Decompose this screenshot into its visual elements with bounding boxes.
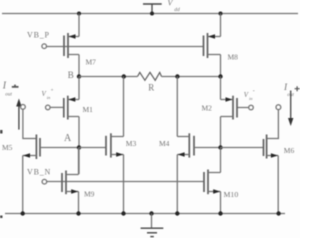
power supply Vdd symbol — [143, 4, 162, 14]
svg-text:M6: M6 — [284, 146, 295, 155]
label Iout- — [2, 81, 19, 98]
label Vin- — [244, 89, 255, 102]
svg-text:+: + — [51, 88, 54, 94]
svg-text:M1: M1 — [83, 105, 94, 114]
node B — [77, 74, 81, 78]
wire node B to resistor — [79, 76, 138, 78]
wire M5 source to bottom rail — [22, 156, 24, 214]
node dot rail M10 — [218, 211, 222, 215]
wire VB_N bus to gates of M9 M10 — [47, 181, 204, 183]
svg-text:M5: M5 — [2, 143, 13, 152]
transistor M1 (PMOS) — [64, 96, 79, 120]
wire Iout+ terminal to M6 drain — [267, 110, 279, 139]
transistor M9 (NMOS) — [62, 171, 79, 195]
wire M5 gate to node A — [40, 147, 79, 149]
node dot top rail left — [77, 12, 81, 16]
svg-text:M2: M2 — [202, 104, 213, 113]
label Iout+ — [283, 83, 300, 98]
wire M1 source to node B — [78, 77, 80, 100]
svg-text:M9: M9 — [84, 190, 95, 199]
terminal Vin+ — [46, 105, 51, 110]
wire Vin+ to M1 gate — [50, 106, 64, 108]
node dot rail M4 — [175, 211, 179, 215]
wire node A to M9 drain — [78, 148, 80, 175]
transistor M2 (PMOS mirrored) — [221, 96, 238, 120]
wire top rail VDD — [2, 13, 298, 15]
wire node A to M3 gate — [79, 147, 106, 149]
node dot top rail right — [219, 12, 223, 16]
node dot top rail supply — [150, 12, 154, 16]
edge mark left bottom — [0, 216, 3, 219]
transistor M4 (NMOS mirrored) — [177, 133, 194, 157]
node M4 drain on R wire — [175, 74, 179, 78]
svg-text:B: B — [68, 70, 74, 80]
transistor M8 (PMOS) — [204, 33, 221, 58]
node A — [77, 145, 81, 149]
terminal Iout+ — [276, 105, 281, 110]
svg-text:VB_P: VB_P — [27, 31, 50, 40]
wire M8 drain to node B2 — [220, 55, 222, 77]
svg-text:V: V — [42, 90, 47, 98]
transistor M10 (NMOS) — [204, 170, 221, 195]
wire Vin- to M2 gate — [237, 107, 249, 109]
wire node A2 to M10 drain — [220, 148, 222, 173]
wire M7 source to rail — [78, 14, 80, 37]
label Vdd — [168, 0, 181, 13]
wire M7 drain to node B — [78, 55, 80, 77]
node M3 drain on R wire — [122, 74, 126, 78]
transistor M5 (NMOS mirrored) — [23, 135, 40, 160]
terminal Vin- — [249, 105, 254, 110]
wire M2 drain to node A2 — [220, 117, 222, 148]
wire M1 drain to node A — [78, 117, 80, 148]
edge mark left middle — [0, 130, 3, 134]
svg-text:R: R — [148, 82, 154, 92]
node dot rail M5 — [21, 211, 25, 215]
svg-text:M3: M3 — [126, 139, 137, 148]
wire Iout- terminal to M5 drain — [23, 109, 37, 138]
svg-text:VB_N: VB_N — [27, 168, 51, 177]
node dot rail M6 — [276, 211, 280, 215]
wire M6 source to bottom rail — [277, 156, 279, 214]
svg-text:in: in — [249, 96, 253, 101]
terminal Iout- — [21, 105, 26, 110]
wire M4 drain up to R wire — [176, 77, 178, 137]
svg-text:A: A — [64, 133, 72, 144]
wire M9 drain to node A column — [78, 148, 80, 175]
node dot rail M3 — [121, 211, 125, 215]
wire VB_P bus to gates of M7 M8 — [47, 46, 204, 48]
svg-text:M7: M7 — [86, 58, 97, 67]
node A2 — [218, 145, 222, 149]
node B2 dot — [218, 74, 222, 78]
resistor R — [138, 72, 162, 80]
svg-text:I: I — [2, 81, 7, 92]
svg-text:M8: M8 — [228, 53, 239, 62]
svg-text:M10: M10 — [224, 190, 239, 199]
svg-text:-: - — [253, 89, 255, 95]
wire M4 source to bottom rail — [176, 155, 178, 214]
current arrow Iout- (up) — [16, 99, 21, 130]
terminal VB_P — [42, 44, 47, 49]
wire M2 source to node B2 — [220, 77, 222, 100]
svg-text:in: in — [47, 95, 51, 100]
terminal VB_N — [42, 179, 47, 184]
wire M10 source to bottom rail — [220, 192, 222, 214]
wire M3 source to bottom rail — [123, 155, 125, 214]
wire M4 gate to node A2 — [194, 147, 221, 149]
wire bottom rail — [5, 213, 285, 215]
wire M3 drain up to R wire — [123, 77, 125, 137]
node dot rail M9 — [76, 211, 80, 215]
svg-text:V: V — [168, 0, 174, 8]
ground — [141, 214, 164, 237]
current arrow Iout+ (down) — [288, 91, 293, 127]
label Vin+ — [42, 88, 54, 101]
wire resistor to node B2 — [162, 76, 221, 78]
transistor M3 (NMOS) — [106, 133, 124, 157]
wire M9 source to bottom rail — [78, 192, 80, 214]
transistor M7 (PMOS) — [64, 33, 79, 58]
wire node A2 to M6 gate — [221, 147, 264, 149]
svg-text:M4: M4 — [159, 139, 170, 148]
node dot rail ground — [149, 211, 153, 215]
wire M8 source to rail — [220, 14, 222, 37]
svg-text:dd: dd — [174, 7, 180, 13]
svg-text:out: out — [5, 91, 12, 97]
transistor M6 (NMOS) — [264, 135, 279, 159]
